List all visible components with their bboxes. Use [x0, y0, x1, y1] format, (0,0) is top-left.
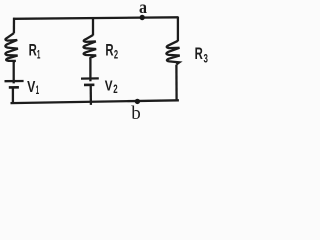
- wire left bottom (V1 to bottom): [12, 87, 14, 103]
- wire left mid (R1 to V1): [13, 61, 15, 83]
- node b dot: [135, 99, 140, 104]
- resistor R1: [5, 33, 18, 62]
- svg-text:a: a: [139, 0, 147, 17]
- wire left top: [13, 18, 15, 34]
- svg-text:V: V: [105, 77, 113, 94]
- node a dot: [140, 15, 145, 20]
- svg-text:2: 2: [113, 84, 117, 96]
- label R3: [195, 44, 208, 65]
- battery V1 long plate: [5, 80, 24, 82]
- battery V2 long plate: [81, 77, 99, 79]
- svg-text:2: 2: [114, 50, 118, 62]
- svg-text:1: 1: [37, 50, 41, 62]
- svg-text:R: R: [105, 40, 113, 59]
- svg-text:b: b: [131, 103, 141, 124]
- label V2: [105, 77, 118, 96]
- svg-text:3: 3: [204, 54, 208, 66]
- wire bottom: [11, 100, 179, 103]
- svg-text:R: R: [29, 41, 37, 60]
- battery V1 short plate: [9, 86, 19, 89]
- label V1: [27, 79, 39, 97]
- wire top: [13, 17, 178, 19]
- wire middle bottom (V2 to bottom): [90, 85, 93, 105]
- battery V2 short plate: [84, 84, 94, 87]
- resistor R2: [83, 35, 96, 59]
- label R1: [29, 41, 41, 62]
- label R2: [105, 40, 118, 61]
- wire right top: [177, 17, 179, 42]
- svg-text:V: V: [27, 79, 36, 96]
- svg-text:1: 1: [36, 85, 40, 97]
- wire right bottom (R3 to bottom): [175, 65, 178, 102]
- svg-text:R: R: [195, 44, 203, 63]
- resistor R3: [166, 41, 179, 65]
- wire middle top: [92, 18, 94, 36]
- wire middle mid (R2 to V2): [89, 58, 91, 81]
